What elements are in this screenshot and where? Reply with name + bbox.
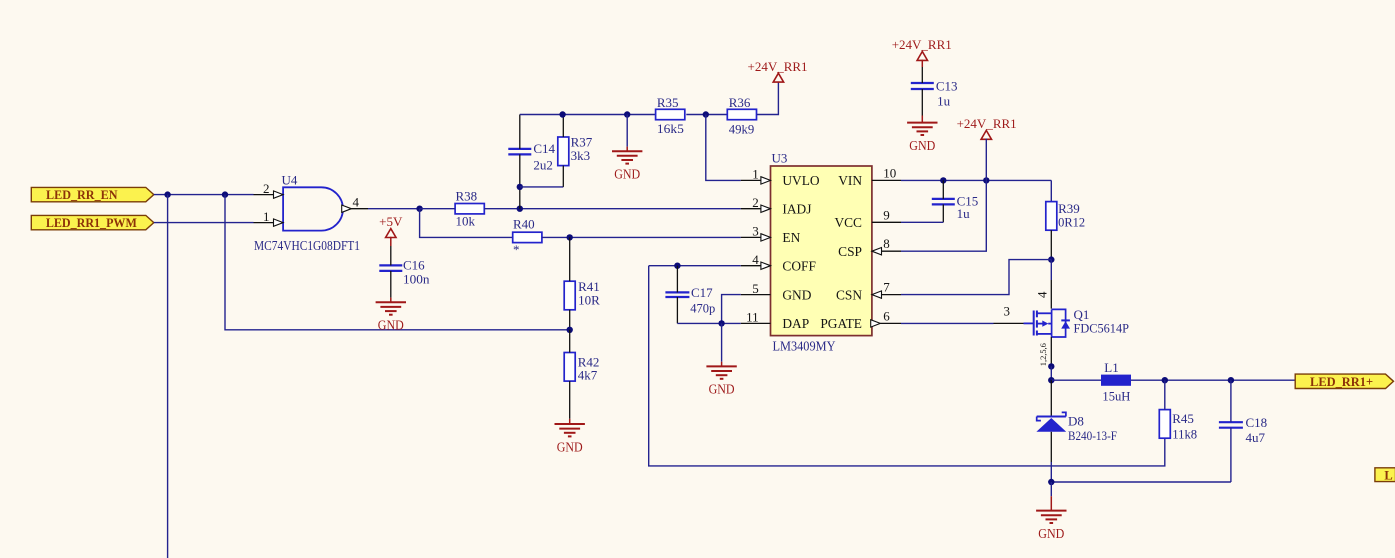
svg-text:LED_RR_EN: LED_RR_EN [46,188,118,202]
svg-text:R45: R45 [1172,411,1194,426]
resistor R41 [564,237,600,329]
svg-text:0R12: 0R12 [1058,215,1085,230]
svg-text:4k7: 4k7 [578,368,598,383]
svg-text:+24V_RR1: +24V_RR1 [957,116,1017,131]
wire CSP row [901,180,986,251]
net flag LED_RR1+ [1295,374,1393,389]
svg-text:2u2: 2u2 [533,158,553,173]
capacitor C18 [1219,380,1267,482]
wire gate output [368,208,420,210]
svg-text:U3: U3 [772,151,788,166]
net flag partial LED_RR1- [1375,468,1395,483]
svg-text:4: 4 [353,194,360,209]
svg-text:R36: R36 [729,95,751,110]
svg-text:PGATE: PGATE [820,316,862,331]
wire top rail [520,114,656,116]
wire VIN to R39 [1050,180,1052,201]
svg-text:COFF: COFF [782,259,816,274]
net flag LED_RR_EN [31,187,154,202]
svg-text:2: 2 [752,195,759,210]
svg-text:10: 10 [883,165,896,180]
svg-text:+24V_RR1: +24V_RR1 [748,59,808,74]
wire C14-R37 bottom [520,186,564,188]
wire UVLO branch [706,115,741,181]
node C14 bottom junction [517,206,523,212]
power +24V_RR1 CSP [957,116,1017,180]
ground output [1036,482,1066,541]
capacitor C14 [508,115,555,209]
net flag LED_RR1_PWM [31,215,154,230]
svg-text:GND: GND [378,318,404,333]
svg-text:D8: D8 [1068,413,1084,428]
resistor R39 [1046,201,1085,260]
ground divider [612,115,642,182]
svg-text:C18: C18 [1246,415,1268,430]
wire DAP row [677,322,740,324]
wire R40 to EN [542,236,741,238]
wire to R40 [420,209,513,238]
ground C13 [907,123,937,153]
pin 4 label Q1 [1035,291,1050,298]
wire LED_RR_EN to R41/R42 node [225,195,570,330]
svg-text:R35: R35 [657,95,679,110]
node bottom GND junction [1048,479,1054,485]
node R45 top junction [1162,377,1168,383]
resistor R37 [558,115,593,187]
svg-text:1: 1 [752,167,759,182]
wire GND pin5 [722,295,741,324]
svg-text:GND: GND [557,439,583,454]
svg-text:R39: R39 [1058,201,1080,216]
ground R42 [555,424,585,454]
diode D8 B240-13-F [1036,380,1117,482]
power +24V_RR1 divider [748,59,808,82]
resistor R45 [1159,380,1197,441]
node R37 top junction [559,111,565,117]
svg-text:4: 4 [752,252,759,267]
svg-text:100n: 100n [403,272,430,287]
node EN junction [567,234,573,240]
svg-text:C14: C14 [533,141,555,156]
svg-text:GND: GND [782,287,811,302]
svg-text:CSP: CSP [838,244,862,259]
svg-text:2: 2 [263,181,270,196]
wire VCC row [901,221,943,223]
svg-text:5: 5 [752,281,759,296]
op-amp U4 AND gate MC74VHC1G08DFT1 [254,173,369,254]
svg-text:IADJ: IADJ [782,202,811,217]
svg-text:L1: L1 [1104,360,1118,375]
node switch node junction [1048,377,1054,383]
svg-text:EN: EN [782,230,800,245]
svg-text:15uH: 15uH [1102,388,1130,403]
node LED_RR_EN junction B [222,191,228,197]
svg-text:C13: C13 [936,78,958,93]
svg-text:GND: GND [1038,526,1064,541]
wire CSN route [901,260,1051,295]
svg-text:7: 7 [883,280,890,295]
resistor R42 [564,330,599,424]
node COFF-C17 junction [674,263,680,269]
svg-text:+5V: +5V [379,214,403,229]
svg-text:49k9: 49k9 [729,122,755,137]
wire Q1 source [1050,337,1052,366]
node R41-R42 junction [567,327,573,333]
wire R39 to Q1 [1050,260,1052,309]
wire COFF long run [649,266,1165,466]
node VIN-C15 junction [940,177,946,183]
wire R36 to +24V_RR1 [757,81,779,115]
resistor R35 [656,95,685,136]
svg-text:U4: U4 [282,173,298,188]
node VIN-24V junction [983,177,989,183]
svg-text:DAP: DAP [782,316,809,331]
resistor R36 [727,95,756,137]
capacitor C17 [665,266,715,324]
node R39-CSN junction [1048,256,1054,262]
node gate output junction [416,206,422,212]
capacitor C13 [911,67,958,123]
wire VIN row [901,179,1051,181]
node C14-R37 bottom [517,184,523,190]
pin 1,2,5,6 label Q1 [1039,343,1048,366]
svg-text:1,2,5,6: 1,2,5,6 [1039,343,1048,366]
ground C16 [376,302,406,332]
svg-text:MC74VHC1G08DFT1: MC74VHC1G08DFT1 [254,238,360,253]
ground DAP [706,323,736,396]
wire R38 left [420,208,456,210]
wire PGATE row [901,322,1033,324]
node GND branch junction [624,111,630,117]
pin 6 PGATE arrow [871,320,881,327]
power +5V [379,214,403,246]
wire source to L1 row [1050,366,1052,380]
wire LED_RR_EN row [154,194,254,196]
svg-text:VCC: VCC [834,215,862,230]
svg-text:10R: 10R [578,292,600,307]
svg-text:11: 11 [746,310,759,325]
svg-text:1: 1 [263,209,270,224]
wire R38 to IADJ [484,208,741,210]
svg-text:R38: R38 [456,188,478,203]
power +24V_RR1 C13 [892,37,952,67]
node Q1 source junction [1048,363,1054,369]
svg-text:10k: 10k [456,213,476,228]
svg-text:3: 3 [752,224,759,239]
svg-text:3: 3 [1004,304,1011,319]
wire LED_RR1_PWM row [154,222,254,224]
svg-text:L: L [1384,469,1392,483]
svg-text:LED_RR1_PWM: LED_RR1_PWM [46,216,137,230]
node DAP junction [718,320,724,326]
resistor R38 [455,188,484,228]
capacitor C15 [932,180,978,222]
svg-text:*: * [513,242,520,257]
wire vertical LED_RR_EN down [167,195,169,558]
svg-text:C16: C16 [403,257,425,272]
resistor R40 [513,217,542,257]
svg-text:UVLO: UVLO [782,173,820,188]
svg-text:+24V_RR1: +24V_RR1 [892,37,952,52]
svg-text:LED_RR1+: LED_RR1+ [1310,375,1373,389]
svg-text:16k5: 16k5 [657,121,684,136]
svg-text:8: 8 [883,236,890,251]
svg-text:4: 4 [1035,291,1050,298]
node C18 top junction [1228,377,1234,383]
wire R35-R36 [686,114,727,116]
svg-text:R40: R40 [513,217,535,232]
svg-text:GND: GND [614,167,640,182]
svg-text:FDC5614P: FDC5614P [1074,321,1130,336]
svg-text:1u: 1u [937,94,951,109]
transistor Q1 FDC5614P [1034,307,1129,337]
wire bottom GND row [1051,481,1231,483]
capacitor C16 [379,246,430,302]
svg-text:VIN: VIN [838,173,862,188]
node UVLO branch [703,111,709,117]
svg-text:6: 6 [883,308,890,323]
svg-text:CSN: CSN [836,287,862,302]
svg-text:4u7: 4u7 [1246,430,1266,445]
svg-text:C17: C17 [691,285,713,300]
node LED_RR_EN junction A [164,191,170,197]
wire L1 row right [1131,379,1295,381]
svg-text:GND: GND [909,138,935,153]
svg-text:1u: 1u [957,206,971,221]
op-amp U3 LM3409MY [741,151,901,354]
pin 3 label Q1 [1004,304,1011,319]
svg-text:11k8: 11k8 [1172,426,1197,441]
svg-text:3k3: 3k3 [571,148,591,163]
svg-text:GND: GND [709,382,735,397]
svg-text:9: 9 [883,207,890,222]
inductor L1 [1101,360,1131,403]
svg-text:LM3409MY: LM3409MY [773,339,836,354]
svg-text:B240-13-F: B240-13-F [1068,428,1117,443]
svg-text:470p: 470p [690,300,715,315]
wire L1 row left [1051,379,1101,381]
wire COFF row [649,265,741,267]
